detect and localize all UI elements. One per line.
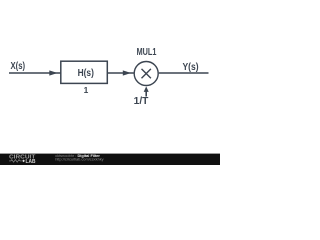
svg-text:http://circuitlab.com/csxkhky: http://circuitlab.com/csxkhky [55, 156, 103, 161]
arrowhead into H(s) [49, 70, 57, 75]
multiplier MUL1 body [134, 62, 158, 86]
watermark logo resistor zigzag [9, 160, 22, 163]
svg-text:MUL1: MUL1 [137, 47, 157, 58]
multiplier MUL1 times sign [142, 69, 151, 78]
svg-text:LAB: LAB [26, 159, 36, 165]
arrowhead into multiplier [123, 70, 131, 75]
wire from multiplier to Y(s) output [159, 72, 209, 74]
svg-text:X(s): X(s) [11, 61, 26, 72]
svg-text:Y(s): Y(s) [183, 62, 199, 73]
wire from H(s) block to multiplier [107, 72, 134, 74]
block H1 H(s) [61, 61, 108, 83]
watermark logo diamond [22, 160, 25, 163]
wire from X(s) input to H(s) block [9, 72, 61, 74]
arrowhead up into multiplier [144, 86, 149, 92]
svg-text:1: 1 [84, 85, 89, 95]
watermark bar [0, 154, 220, 165]
wire 1/T input below multiplier [145, 91, 147, 97]
svg-text:1/T: 1/T [134, 96, 149, 107]
svg-text:H(s): H(s) [78, 68, 94, 79]
